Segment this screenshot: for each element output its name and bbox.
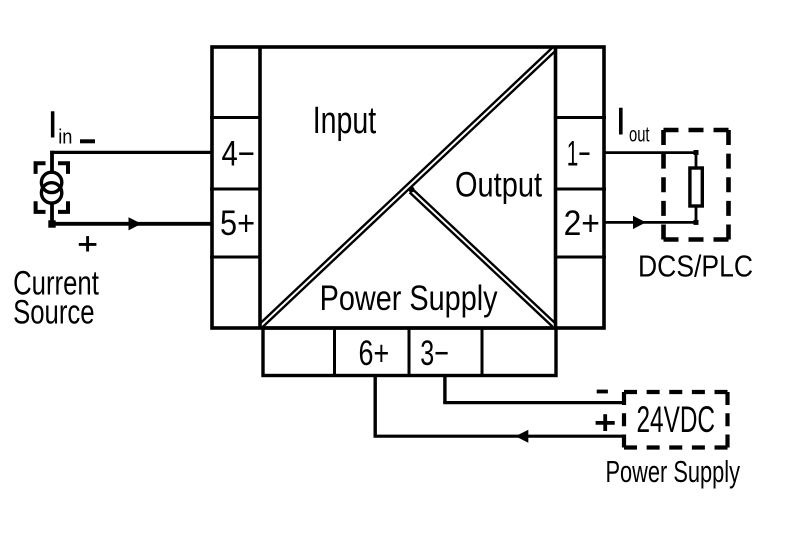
wire: input minus vertical drop to source bbox=[50, 151, 54, 173]
junction dot resistor bottom bbox=[694, 220, 699, 225]
minus sign after Iin bbox=[80, 139, 95, 143]
arrowhead power supply current bbox=[515, 430, 528, 443]
DCS/PLC dashed box bbox=[664, 130, 729, 240]
left terminal column divider bbox=[258, 47, 262, 328]
junction dot at source bottom corner bbox=[48, 220, 55, 227]
current source symbol circles bbox=[41, 172, 61, 203]
wire: 3- horizontal to 24VDC bbox=[443, 401, 623, 404]
svg-text:out: out bbox=[629, 123, 650, 147]
svg-text:Power Supply: Power Supply bbox=[606, 455, 741, 489]
svg-text:Source: Source bbox=[13, 293, 95, 331]
wire: input plus (bottom) horizontal bbox=[50, 222, 212, 226]
svg-text:I: I bbox=[615, 101, 626, 144]
branch diagonal double line (output/power divider) bbox=[410, 189, 555, 326]
svg-text:1−: 1− bbox=[567, 134, 591, 174]
svg-text:Input: Input bbox=[313, 100, 377, 142]
wire: 3- vertical drop bbox=[443, 376, 446, 403]
junction dot on diagonal bbox=[409, 187, 415, 193]
wire: resistor bottom vertical bbox=[695, 206, 698, 222]
svg-text:24VDC: 24VDC bbox=[637, 399, 716, 440]
minus sign at 24VDC bbox=[597, 390, 608, 394]
main diagonal double line (input/power divider) bbox=[260, 47, 556, 327]
wire: input minus (top) horizontal bbox=[50, 151, 212, 154]
plus sign below input wire bbox=[79, 236, 97, 251]
load resistor R (DCS/PLC) bbox=[690, 168, 702, 206]
current source dashed corner brackets bbox=[36, 163, 68, 212]
arrowhead input current bbox=[129, 217, 142, 230]
svg-text:5+: 5+ bbox=[220, 203, 255, 243]
arrowhead output current bbox=[633, 216, 646, 229]
24VDC dashed box bbox=[624, 392, 728, 448]
svg-text:3−: 3− bbox=[420, 333, 449, 373]
right column cell dividers bbox=[556, 118, 607, 258]
svg-text:DCS/PLC: DCS/PLC bbox=[638, 250, 753, 284]
wire: 6+ vertical drop bbox=[374, 376, 377, 437]
junction dot resistor top bbox=[694, 150, 699, 155]
svg-text:Output: Output bbox=[455, 165, 542, 205]
right terminal column divider bbox=[554, 47, 558, 328]
plus sign at 24VDC bbox=[596, 414, 615, 431]
svg-text:in: in bbox=[58, 126, 72, 148]
wire: resistor top vertical bbox=[695, 153, 698, 168]
svg-text:4−: 4− bbox=[222, 134, 255, 174]
left column cell dividers bbox=[210, 118, 260, 258]
wire: output 2+ horizontal bbox=[604, 221, 696, 224]
bottom terminal row bbox=[263, 328, 556, 376]
wire: 6+ horizontal to 24VDC bbox=[374, 435, 624, 438]
wire: output 1- horizontal bbox=[604, 151, 696, 154]
svg-text:I: I bbox=[47, 105, 58, 147]
isolator outer box U1 bbox=[212, 47, 604, 328]
svg-text:Power Supply: Power Supply bbox=[320, 278, 498, 318]
svg-text:6+: 6+ bbox=[359, 333, 390, 373]
wire: source bottom vertical bbox=[50, 203, 54, 224]
svg-text:2+: 2+ bbox=[564, 203, 600, 243]
